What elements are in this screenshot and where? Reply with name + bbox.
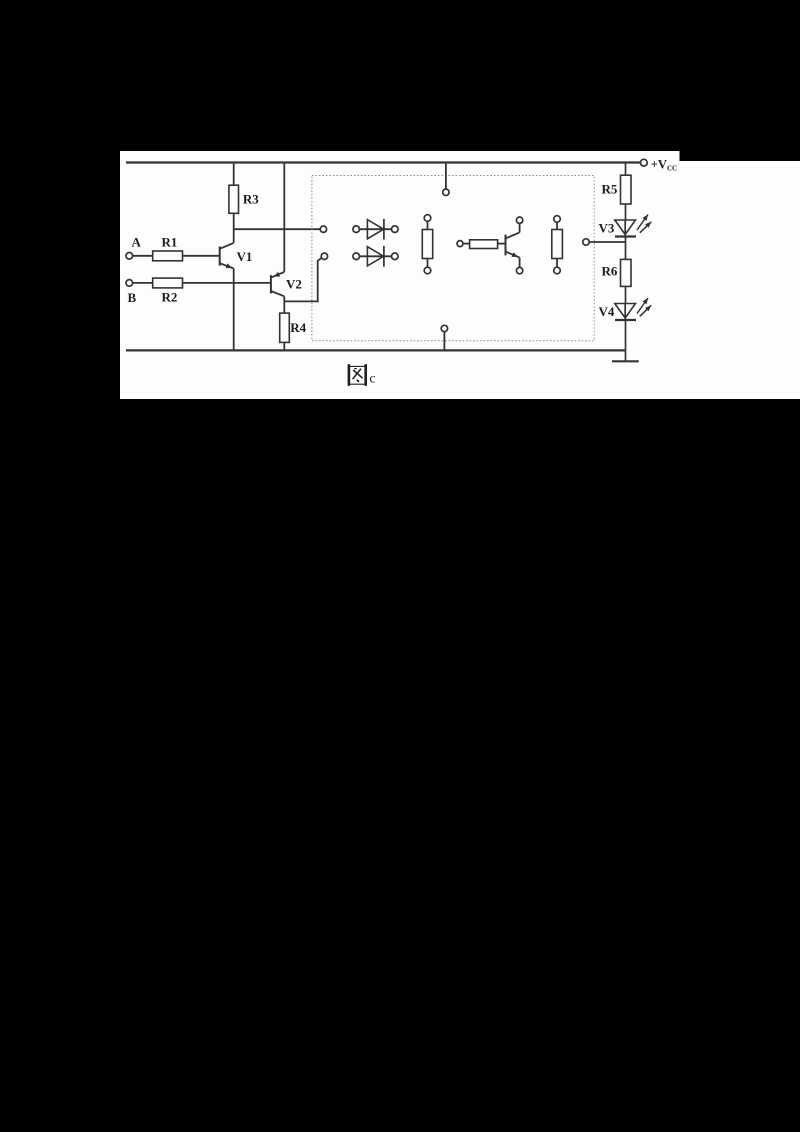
diode D1 (opto input) (353, 219, 398, 240)
wire V3 to R6 (625, 237, 627, 260)
resistor R3 (229, 185, 239, 213)
LED V3 (615, 215, 651, 237)
wire V1 emitter to bottom rail (233, 269, 235, 352)
wire rail to R3 (233, 163, 235, 186)
resistor R1 (153, 251, 183, 261)
resistor R6 (621, 259, 632, 286)
svg-text:R1: R1 (162, 234, 178, 249)
wire V1 collector up (233, 213, 235, 243)
node optocoupler bottom pin (441, 325, 447, 331)
wire V2 emitter to +Vcc rail (283, 163, 285, 272)
resistor R2 (153, 278, 183, 288)
svg-text:V1: V1 (236, 249, 252, 264)
wire optocoupler bottom pin to bottom rail (443, 332, 445, 352)
svg-text:R4: R4 (290, 320, 306, 335)
svg-text:V4: V4 (599, 304, 615, 319)
wire R5 to V3 (625, 204, 627, 220)
svg-text:B: B (127, 290, 136, 305)
optocoupler dashed box (312, 176, 594, 341)
wire optocoupler output to V3/R6 node (589, 241, 625, 243)
wire +Vcc rail to R5 (625, 163, 627, 176)
resistor R5 (621, 175, 632, 204)
svg-text:R2: R2 (162, 289, 178, 304)
node +Vcc terminal (640, 159, 647, 166)
resistor R4 (280, 313, 290, 342)
wire V2 collector down to R4 (283, 296, 285, 313)
terminal B (126, 280, 133, 287)
wire V4 to bottom rail (625, 320, 627, 350)
wire R6 to V4 (625, 286, 627, 303)
transistor V1 (NPN) (220, 243, 234, 269)
ground (625, 350, 627, 361)
transistor V2 (PNP) (271, 272, 284, 296)
wire R2 to V2 base (183, 282, 271, 284)
svg-text:V2: V2 (286, 277, 302, 292)
label caption 图c (349, 364, 376, 386)
node optocoupler pin 2 (321, 253, 327, 259)
wire B to R2 (133, 282, 153, 284)
phototransistor (opto output) (457, 217, 523, 274)
wire bottom rail (126, 349, 626, 351)
resistor (opto internal left) (422, 215, 432, 274)
node optocoupler pin 1 (320, 226, 326, 232)
svg-text:c: c (369, 371, 375, 386)
wire collector node to optocoupler pin 1 (234, 228, 321, 230)
wire R1 to V1 base (183, 255, 220, 257)
diode D2 (opto input) (353, 246, 398, 267)
terminal A (126, 253, 133, 260)
resistor (opto internal right) (552, 216, 563, 274)
svg-text:R3: R3 (243, 192, 259, 207)
svg-text:R6: R6 (602, 264, 618, 279)
svg-text:V3: V3 (599, 221, 615, 236)
node optocoupler output pin (583, 239, 589, 245)
wire +Vcc top rail (126, 161, 641, 163)
svg-text:R5: R5 (602, 182, 618, 197)
wire top rail to optocoupler top pin (445, 163, 447, 190)
wire V2 collector to optocoupler pin 2 (284, 258, 322, 302)
wire R4 to bottom rail (283, 342, 285, 351)
LED V4 (615, 298, 651, 320)
node optocoupler top pin (443, 189, 449, 195)
wire A to R1 (133, 255, 153, 257)
svg-text:A: A (132, 234, 142, 249)
